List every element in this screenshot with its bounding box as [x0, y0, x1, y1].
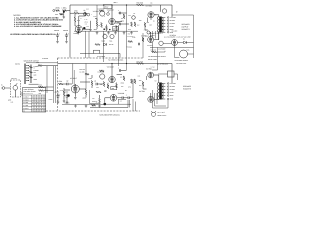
- svg-text:R40 150: R40 150: [151, 50, 156, 52]
- capacitor C14 bottom: [122, 97, 123, 100]
- socket circle mid: [147, 31, 150, 34]
- svg-text:S1 REAR: S1 REAR: [42, 58, 48, 60]
- capacitor C4: [120, 23, 121, 26]
- table col rule 6: [43, 95, 45, 112]
- svg-text:31: 31: [32, 99, 34, 101]
- resistor R4b cathode: [63, 91, 65, 96]
- svg-text:V3 7591: V3 7591: [146, 4, 152, 7]
- resistor R5c: [91, 81, 93, 86]
- selector switch wafer: [25, 64, 26, 85]
- svg-text:47K: 47K: [85, 24, 87, 26]
- svg-text:55: 55: [44, 97, 46, 99]
- svg-text:1K: 1K: [134, 13, 136, 15]
- diode D2 arrow: [104, 43, 107, 46]
- svg-text:20MFD: 20MFD: [64, 91, 69, 93]
- svg-text:MIC: MIC: [34, 72, 36, 74]
- table frame: [23, 88, 46, 113]
- wire bottom risers to psu: [130, 99, 136, 111]
- wire right vertical rail: [172, 15, 194, 58]
- svg-text:FUS: FUS: [187, 50, 190, 52]
- svg-text:LUG: LUG: [11, 102, 14, 104]
- svg-text:INPUTS: INPUTS: [15, 64, 20, 66]
- svg-text:97: 97: [35, 108, 37, 110]
- svg-text:SLO-BLO: SLO-BLO: [147, 45, 153, 47]
- capacitor C16 filter: [56, 94, 59, 100]
- wire mid vertical x85.5: [85, 31, 87, 58]
- tube V2a triode: [100, 11, 105, 16]
- resistor R3 grid: [74, 12, 79, 14]
- svg-text:28: 28: [35, 111, 37, 113]
- switch contact 6: [26, 77, 29, 79]
- resistor R20b feedback: [137, 63, 144, 65]
- ground bottom x99.5: [98, 105, 101, 108]
- svg-text:0.5V: 0.5V: [86, 9, 89, 11]
- switch rotor arrow 2: [29, 72, 33, 74]
- wire psu drops: [153, 31, 159, 40]
- transformer T1 output top channel: [158, 17, 166, 33]
- tube V2 phase inverter: [109, 18, 115, 24]
- tube V2d triode: [100, 74, 105, 79]
- tube V2c lower pentode: [110, 95, 117, 102]
- wire table left lead: [21, 94, 23, 96]
- wire box to table: [21, 92, 23, 94]
- boxed label 450V: [104, 5, 112, 9]
- svg-text:V2 6AN8: V2 6AN8: [23, 99, 29, 101]
- wire v1b gnd: [74, 93, 76, 96]
- table row rule 3: [23, 103, 46, 105]
- trimmer small b: [87, 13, 90, 16]
- svg-text:F1 2A: F1 2A: [145, 36, 149, 38]
- terminal strip1 lug 6: [167, 31, 169, 33]
- wire screens: [145, 18, 151, 31]
- wire psu bus: [150, 47, 194, 49]
- svg-text:TO V6 PIN 4: TO V6 PIN 4: [127, 36, 135, 38]
- svg-text:FB: FB: [151, 3, 153, 5]
- svg-text:73: 73: [35, 97, 37, 99]
- wire V2 plate: [107, 5, 117, 31]
- ground bottom x86: [85, 105, 88, 108]
- svg-text:R20 56K: R20 56K: [137, 60, 144, 63]
- diode D1: [184, 41, 187, 44]
- switch contact 1: [26, 65, 29, 67]
- ground stub x108.5: [107, 31, 110, 34]
- wire bottom border vertical b: [73, 70, 75, 88]
- svg-text:15K: 15K: [121, 18, 123, 20]
- svg-text:19: 19: [40, 97, 42, 99]
- wire C1 to V1 grid: [70, 12, 87, 14]
- wire S2 leads: [158, 74, 178, 80]
- ground stub x131.5: [130, 31, 133, 34]
- wire top channel ground bus: [74, 30, 138, 32]
- wire grids b: [117, 71, 127, 75]
- terminal strip2 lug 2: [167, 86, 169, 88]
- wire psu left drop: [152, 42, 165, 70]
- svg-text:66: 66: [35, 105, 37, 107]
- wire switch out: [29, 84, 54, 90]
- shield cable pair: [54, 66, 56, 103]
- filter choke L1: [159, 41, 163, 45]
- wire V2c cathode: [100, 95, 111, 103]
- ground stub x124: [123, 31, 126, 34]
- svg-text:35: 35: [35, 102, 37, 104]
- bus junction 3: [126, 4, 127, 5]
- resistor R12: [134, 22, 136, 27]
- table col rule 3: [36, 95, 38, 112]
- capacitor C1b: [67, 83, 68, 86]
- svg-text:TO BIAS: TO BIAS: [127, 47, 133, 49]
- svg-text:TV: TV: [34, 68, 36, 70]
- ground V1b plate: [74, 96, 77, 99]
- resistor R40: [152, 51, 157, 53]
- junction blob a: [103, 28, 105, 30]
- tube V3 output upper: [148, 12, 154, 18]
- wire v1 gnd: [82, 21, 90, 29]
- resistor R8b: [107, 85, 109, 89]
- switch contact dot 5: [28, 75, 29, 76]
- terminal strip2 lug 6: [167, 98, 169, 100]
- wire v1 grid: [79, 13, 86, 25]
- svg-text:17: 17: [44, 102, 46, 104]
- capacitor C3: [120, 12, 121, 15]
- wire R5 to B+: [96, 5, 98, 22]
- svg-text:19V: 19V: [150, 25, 153, 27]
- pot wiper arrow: [15, 83, 17, 97]
- svg-text:TO V2: TO V2: [151, 67, 155, 69]
- svg-text:64: 64: [40, 111, 42, 113]
- chassis dashed top edge: [58, 57, 144, 59]
- ground C17: [66, 101, 69, 104]
- svg-text:R20 56K: R20 56K: [137, 1, 144, 4]
- wire bottom border vertical a: [72, 64, 74, 85]
- capacitor C2 blob: [83, 27, 85, 29]
- svg-text:39: 39: [37, 105, 39, 107]
- resistor R2: [63, 10, 67, 12]
- capacitor C5b: [96, 83, 97, 86]
- svg-text:330: 330: [147, 22, 150, 24]
- svg-text:AUX: AUX: [34, 75, 37, 77]
- table row rule 5: [23, 108, 46, 110]
- shield box volume control: [11, 80, 21, 97]
- svg-text:08: 08: [37, 102, 39, 104]
- wire J1 tip: [1, 87, 10, 89]
- resistor R5b plate: [85, 90, 87, 95]
- switch contact 3: [26, 70, 29, 72]
- resistor R11b: [131, 79, 133, 84]
- potentiometer bias 1: [103, 34, 107, 38]
- resistor R1: [56, 10, 60, 12]
- table col rule 5: [41, 95, 43, 112]
- table col rule 1: [31, 95, 33, 112]
- capacitor C3b: [120, 69, 121, 72]
- AC plug body: [151, 112, 155, 116]
- ground stub x115.5: [114, 31, 117, 34]
- capacitor C13 gap: [139, 43, 140, 46]
- svg-text:C15: C15: [92, 98, 95, 100]
- terminal strip2 lug 5: [167, 95, 169, 97]
- svg-text:93: 93: [32, 105, 34, 107]
- wire V1b plate: [79, 89, 86, 98]
- AC plug prongs: [151, 111, 156, 113]
- resistor box R9 label: [112, 27, 118, 30]
- potentiometer bias 2: [110, 34, 114, 38]
- resistor R12b: [134, 79, 136, 84]
- resistor R9b: [116, 84, 118, 89]
- svg-text:V2 6AN8: V2 6AN8: [107, 65, 114, 68]
- resistor R1b second: [60, 13, 64, 15]
- svg-text:470: 470: [128, 34, 131, 36]
- switch rotor arrow 1: [29, 67, 33, 69]
- svg-text:AUX: AUX: [55, 14, 58, 16]
- svg-text:.005: .005: [104, 90, 107, 92]
- resistor R20 feedback: [137, 4, 144, 6]
- ground stub x78.2: [77, 31, 80, 34]
- switch contact 5: [26, 75, 29, 77]
- switch S2 box: [168, 71, 175, 77]
- input jack top channel: [53, 10, 55, 12]
- svg-text:TAPE: TAPE: [34, 79, 38, 81]
- capacitor C10 filter: [56, 33, 59, 39]
- trimmer small a: [84, 13, 87, 16]
- svg-text:86: 86: [44, 99, 46, 101]
- resistor R30: [39, 86, 44, 88]
- resistor R32 bal: [38, 65, 42, 67]
- potentiometer wiper blob: [63, 11, 65, 13]
- junction blob b: [109, 29, 110, 30]
- wire to lower grid: [115, 23, 129, 24]
- chassis dashed left edge: [57, 58, 59, 111]
- wire input feed: [67, 10, 71, 12]
- wire plates to xfmr b: [151, 75, 159, 99]
- tube V1b first stage: [71, 85, 79, 93]
- terminal strip1 lug 3: [167, 23, 169, 25]
- tube V1 first stage: [75, 26, 82, 33]
- table row rule 1: [23, 97, 46, 99]
- svg-text:V5 GZ34: V5 GZ34: [23, 108, 29, 110]
- wire to splitter: [80, 75, 103, 88]
- resistor R13 screen: [144, 23, 146, 28]
- resistor R15: [95, 44, 100, 46]
- svg-text:SOCKETS: SOCKETS: [182, 28, 191, 31]
- resistor box R16: [94, 50, 100, 53]
- svg-text:TO SPKR FUSE: TO SPKR FUSE: [176, 63, 186, 65]
- resistor R7b: [103, 82, 105, 87]
- resistor R7: [101, 23, 103, 28]
- capacitor C11 filter: [65, 33, 68, 39]
- resistor R31: [39, 90, 44, 92]
- bus junction 2: [111, 4, 112, 5]
- selector wafer 2: [30, 65, 31, 84]
- terminal strip2 lug 1: [167, 83, 169, 85]
- switch rotor arrow 3: [29, 77, 33, 79]
- svg-text:60: 60: [37, 108, 39, 110]
- ground V1: [89, 28, 92, 31]
- table cell values: [32, 97, 46, 113]
- capacitor C1: [84, 12, 85, 15]
- bus junction 1: [103, 4, 104, 5]
- shielded cable mid: [46, 66, 48, 93]
- wire pot to ground: [63, 12, 65, 16]
- svg-text:SOCKETS: SOCKETS: [183, 88, 192, 91]
- wire top B+ bus: [70, 5, 172, 17]
- resistor R10 grid upper: [123, 14, 125, 19]
- wire V2b plate: [108, 64, 117, 85]
- resistor R11: [131, 22, 133, 27]
- capacitor C2c blob: [104, 103, 107, 106]
- table row rule 4: [23, 106, 46, 108]
- ground C11: [65, 40, 68, 43]
- capacitor C17 filter: [65, 94, 68, 100]
- resistor R13b screen: [142, 82, 144, 87]
- svg-text:470K: 470K: [144, 30, 147, 32]
- resistor R9: [116, 26, 118, 31]
- svg-text:V1 6EU7: V1 6EU7: [70, 77, 77, 80]
- svg-text:46: 46: [37, 97, 39, 99]
- table col rule 4: [38, 95, 40, 112]
- tube V2b phase inverter: [109, 76, 115, 82]
- svg-text:33: 33: [40, 108, 42, 110]
- chassis dashed bottom edge: [46, 110, 140, 112]
- wire R5b to B+: [85, 64, 87, 90]
- ground bottom x75.5: [74, 105, 77, 108]
- svg-text:48: 48: [44, 105, 46, 107]
- resistor R10b: [123, 76, 125, 81]
- svg-text:470K: 470K: [137, 76, 140, 78]
- tube V5 rectifier: [172, 40, 178, 46]
- switch contact dot 1: [28, 65, 29, 66]
- svg-text:25MFD: 25MFD: [92, 101, 96, 103]
- wire mid lower: [80, 54, 120, 58]
- switch contact dot 4: [28, 73, 29, 74]
- svg-text:35V: 35V: [137, 25, 139, 27]
- terminal strip1 lug 5: [167, 29, 169, 31]
- svg-text:71: 71: [40, 102, 42, 104]
- terminal strip1 lug 2: [167, 20, 169, 22]
- wire plates to xfmr: [151, 15, 159, 40]
- terminal strip1 lug 4: [167, 26, 169, 28]
- wire C16 C17 grounds: [58, 99, 67, 100]
- svg-text:1/2 STEREO AMPLIFIER SHOWN OT: 1/2 STEREO AMPLIFIER SHOWN OTHER IDENTIC…: [10, 33, 57, 36]
- wire psu row: [163, 42, 193, 45]
- resistor R7c: [99, 99, 101, 104]
- wire psu lower: [175, 46, 194, 58]
- svg-text:20MFD: 20MFD: [55, 91, 60, 93]
- terminal strip2 lug 4: [167, 92, 169, 94]
- svg-text:V4 7591: V4 7591: [23, 105, 28, 107]
- resistor R18 gap: [142, 38, 144, 42]
- svg-text:56K: 56K: [117, 22, 119, 24]
- switch contact 2: [26, 67, 29, 69]
- svg-text:.005: .005: [96, 87, 99, 89]
- table header line: [23, 94, 46, 96]
- svg-text:V2 6AN8: V2 6AN8: [107, 8, 114, 11]
- svg-text:.022: .022: [128, 15, 131, 17]
- svg-text:00: 00: [44, 111, 46, 113]
- svg-text:1.6V: 1.6V: [94, 16, 97, 18]
- wire C1b to grid: [63, 84, 75, 85]
- svg-text:.047: .047: [120, 101, 123, 103]
- wire bottom B+ bus: [58, 64, 173, 84]
- input jack J1: [2, 87, 5, 90]
- svg-text:35V: 35V: [139, 85, 141, 87]
- ground stub x97: [96, 31, 99, 34]
- wire rail x118.5: [118, 25, 120, 66]
- capacitor can top: [162, 9, 166, 13]
- wire screens b: [143, 76, 147, 89]
- trimmer arrow c: [108, 11, 110, 13]
- resistor R24: [92, 104, 96, 106]
- svg-text:77: 77: [37, 99, 39, 101]
- svg-text:V3 7591: V3 7591: [23, 102, 28, 104]
- svg-text:16V: 16V: [87, 26, 89, 28]
- wire bottom mid lines: [105, 100, 131, 105]
- wire to upper grid: [115, 13, 126, 22]
- bus junction 4: [126, 63, 127, 64]
- resistor R6c: [96, 91, 101, 93]
- wire V2c out: [117, 79, 133, 98]
- svg-text:PIN 3: PIN 3: [85, 21, 89, 23]
- svg-text:40: 40: [40, 99, 42, 101]
- svg-text:79: 79: [44, 108, 46, 110]
- wire switch top bus: [26, 62, 58, 64]
- tube V4 output lower: [148, 37, 154, 43]
- switch contact 4: [26, 72, 29, 74]
- switch contact dot 7: [28, 80, 29, 81]
- switch contact dot 6: [28, 78, 29, 79]
- svg-text:5. ALL VOLTAGES DC UNLESS MARK: 5. ALL VOLTAGES DC UNLESS MARKED OTHERWI…: [14, 25, 62, 28]
- svg-text:62: 62: [32, 102, 34, 104]
- wire bal to bus: [42, 65, 58, 67]
- svg-text:SHLD: SHLD: [49, 99, 53, 101]
- tube V3b output upper: [148, 72, 154, 78]
- svg-text:GND: GND: [8, 99, 11, 101]
- wire rail x126.5: [126, 5, 128, 70]
- resistor R8: [106, 26, 108, 30]
- trimmer c: [107, 13, 110, 16]
- svg-text:FILTER: FILTER: [150, 35, 155, 37]
- wire mid vertical x89: [88, 32, 90, 59]
- wire top-left border vertical: [69, 5, 71, 58]
- wire bottom bus2: [62, 104, 104, 106]
- ground C16: [57, 101, 60, 104]
- svg-text:1.4V: 1.4V: [85, 19, 88, 21]
- resistor R4 cathode: [74, 17, 76, 22]
- resistor R6: [100, 10, 105, 12]
- resistor R23: [85, 73, 89, 75]
- terminal strip1 lug 1: [167, 17, 169, 19]
- capacitor C4b: [128, 97, 129, 100]
- wire rail x103.5: [103, 31, 105, 62]
- switch contact 7: [26, 80, 29, 82]
- bus junction 5: [111, 63, 112, 64]
- resistor R17 gap: [128, 41, 133, 43]
- wire caps tie: [58, 38, 67, 40]
- ground V1b: [63, 100, 66, 103]
- resistor R5 plate: [96, 22, 98, 27]
- resistor R3b grid: [59, 83, 64, 85]
- svg-text:6.3V: 6.3V: [163, 56, 166, 58]
- ground C10: [56, 40, 59, 43]
- pilot lamp: [132, 16, 136, 20]
- svg-text:91: 91: [37, 111, 39, 113]
- resistor R6b: [100, 70, 105, 72]
- svg-text:24: 24: [32, 108, 34, 110]
- wire ground return line: [90, 100, 128, 108]
- wire V1 plate: [95, 19, 97, 29]
- power transformer T3: [180, 50, 188, 58]
- wire rail x143: [142, 33, 144, 58]
- svg-text:00: 00: [32, 97, 34, 99]
- svg-text:R22 10K: R22 10K: [80, 69, 85, 71]
